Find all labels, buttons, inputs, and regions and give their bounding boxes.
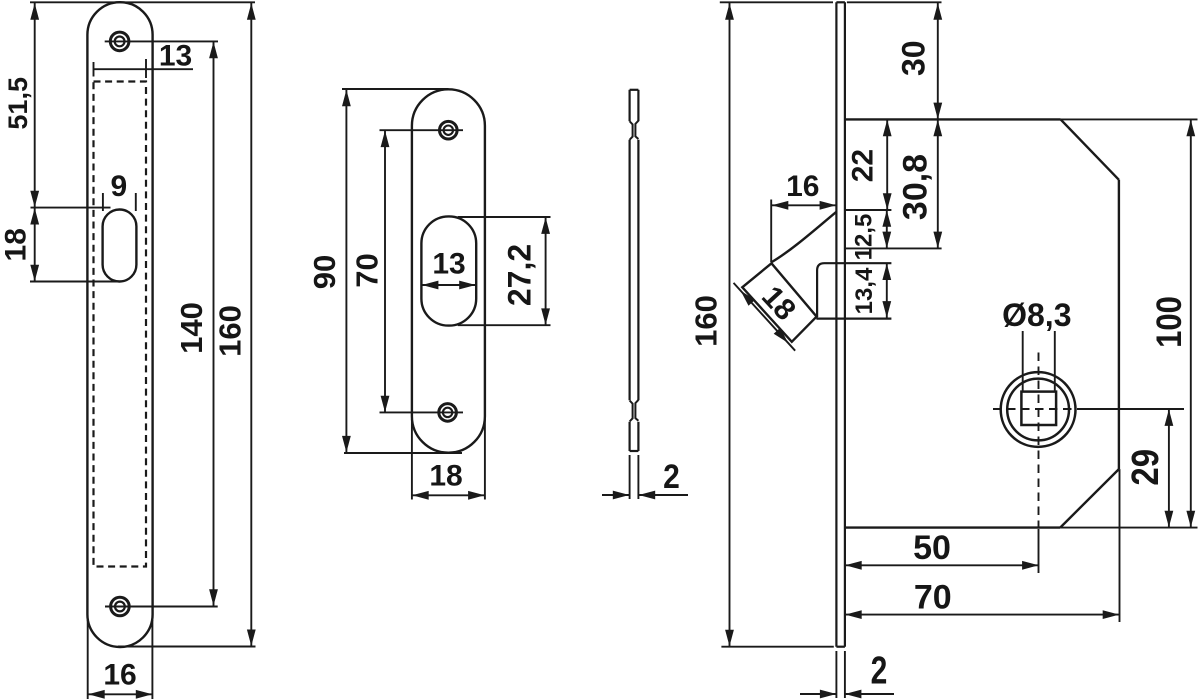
svg-text:51,5: 51,5: [3, 77, 33, 130]
svg-text:18: 18: [429, 460, 462, 493]
svg-text:12,5: 12,5: [851, 214, 878, 261]
svg-text:9: 9: [110, 170, 127, 203]
svg-text:27,2: 27,2: [502, 244, 538, 306]
svg-text:13: 13: [159, 40, 192, 73]
svg-text:16: 16: [103, 659, 136, 692]
svg-text:50: 50: [913, 529, 951, 567]
svg-text:2: 2: [871, 650, 888, 693]
svg-text:13: 13: [432, 248, 465, 281]
svg-text:160: 160: [212, 305, 247, 357]
svg-text:30,8: 30,8: [897, 154, 935, 220]
svg-text:100: 100: [1150, 296, 1189, 348]
svg-text:160: 160: [688, 295, 723, 347]
svg-text:70: 70: [914, 578, 952, 616]
svg-text:30: 30: [896, 40, 932, 76]
svg-text:16: 16: [786, 170, 819, 203]
svg-text:18: 18: [755, 280, 802, 327]
svg-text:Ø8,3: Ø8,3: [1002, 297, 1071, 333]
svg-text:18: 18: [0, 228, 33, 261]
svg-text:70: 70: [349, 253, 384, 287]
svg-text:90: 90: [307, 255, 342, 289]
svg-text:140: 140: [174, 302, 209, 354]
svg-text:2: 2: [663, 457, 680, 495]
svg-text:22: 22: [846, 149, 879, 182]
svg-text:13,4: 13,4: [851, 267, 878, 314]
svg-text:29: 29: [1124, 449, 1167, 486]
